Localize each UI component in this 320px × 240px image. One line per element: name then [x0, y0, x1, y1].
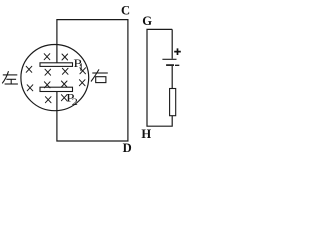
x mark 2 — [62, 54, 68, 60]
field x marks — [26, 54, 85, 103]
magnetic field region boundary circle — [21, 45, 89, 111]
x mark 3 — [26, 66, 32, 72]
battery negative plate (short) — [166, 64, 174, 66]
x mark 8 — [61, 81, 67, 87]
wire loop of battery circuit G-H — [147, 29, 172, 126]
x mark 1 — [44, 54, 50, 60]
svg-text:H: H — [141, 127, 151, 141]
x mark 10 — [45, 97, 51, 103]
capacitor plate P2 — [40, 87, 73, 91]
plate label P1 — [73, 57, 82, 70]
x mark 12 — [80, 68, 86, 74]
plate label P2 — [66, 91, 78, 107]
hanzi label "zuo" (left) — [2, 71, 18, 84]
svg-text:D: D — [123, 141, 132, 155]
battery positive plate (long) — [162, 58, 176, 60]
battery + polarity mark — [174, 48, 181, 55]
x mark 7 — [44, 82, 50, 88]
x mark 6 — [27, 85, 33, 91]
wire loop from plates through nodes C and D — [57, 20, 128, 141]
capacitor plate P1 — [40, 63, 73, 67]
svg-text:2: 2 — [72, 97, 78, 107]
x mark 9 — [79, 80, 85, 86]
svg-text:G: G — [142, 14, 152, 28]
svg-text:C: C — [121, 4, 130, 18]
x mark 11 — [61, 95, 67, 101]
hanzi label "you" (right) — [91, 69, 108, 82]
resistor R — [170, 89, 176, 116]
battery - polarity mark — [175, 64, 179, 66]
x mark 5 — [62, 68, 68, 74]
x mark 4 — [45, 69, 51, 75]
